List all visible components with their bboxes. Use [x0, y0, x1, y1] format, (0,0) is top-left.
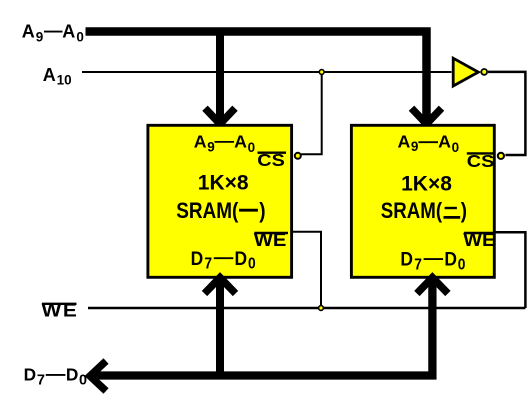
svg-text:A: A: [62, 22, 75, 42]
pin label A9-A0 SRAM2: [398, 131, 460, 155]
SRAM1 box U1: [148, 125, 292, 277]
svg-text:0: 0: [248, 256, 256, 273]
svg-text:SRAM(: SRAM(: [381, 200, 442, 224]
svg-text:9: 9: [36, 29, 44, 44]
SRAM2 box U2: [351, 125, 494, 277]
svg-text:A: A: [398, 131, 411, 151]
svg-text:9: 9: [207, 139, 215, 154]
svg-text:7: 7: [204, 256, 212, 273]
svg-text:D: D: [66, 364, 78, 384]
wire WE: [88, 307, 525, 310]
wire data bus D7-D0 (thick) with corner up to SRAM2: [95, 278, 432, 376]
svg-text:D: D: [191, 247, 204, 269]
inverter output bubble: [481, 69, 487, 75]
node D7-D0 bus label: [24, 364, 87, 388]
arrowhead out of bus to the left: [90, 361, 106, 391]
svg-text:0: 0: [76, 29, 84, 44]
svg-text:D: D: [24, 364, 36, 384]
svg-text:D: D: [444, 248, 457, 270]
wire address bus A9-A0 (thick) with corner down to SRAM2: [86, 32, 427, 120]
wire junction to CS1 bubble: [301, 72, 322, 154]
svg-text:1K×8: 1K×8: [198, 171, 249, 194]
svg-text:D: D: [235, 247, 248, 269]
pin label D7-D0 SRAM1: [191, 247, 256, 273]
svg-text:A: A: [194, 132, 207, 152]
pin CS SRAM2 (active low): [467, 152, 494, 172]
arrowhead into SRAM2 bottom: [417, 278, 448, 294]
svg-text:0: 0: [248, 140, 256, 155]
junction on A10 line: [319, 70, 324, 75]
svg-text:9: 9: [411, 139, 419, 154]
wire WE1 pin to junction: [293, 232, 321, 308]
label SRAM(1): [176, 199, 238, 224]
wire data bus branch up to SRAM1: [216, 278, 224, 380]
wire A10: [82, 71, 452, 73]
node A9-A0 bus label: [22, 22, 84, 45]
svg-text:A: A: [234, 132, 247, 152]
svg-text:1K×8: 1K×8: [401, 172, 452, 195]
junction on WE line: [319, 306, 324, 311]
svg-text:A: A: [22, 22, 35, 42]
svg-text:SRAM(: SRAM(: [176, 199, 238, 224]
arrowhead into SRAM1 top: [205, 108, 235, 124]
label SRAM(2): [381, 200, 442, 224]
svg-text:0: 0: [452, 140, 460, 155]
svg-text:): ): [259, 199, 265, 224]
svg-text:0: 0: [458, 257, 466, 274]
svg-text:7: 7: [414, 257, 422, 274]
wire address bus branch down to SRAM1: [216, 28, 224, 120]
pin label D7-D0 SRAM2: [400, 248, 465, 274]
node WE label (active low): [42, 300, 79, 321]
pin label A9-A0 SRAM1: [194, 132, 255, 156]
arrowhead into SRAM1 bottom: [205, 278, 236, 294]
svg-text:7: 7: [37, 373, 45, 389]
pin WE SRAM1 (active low): [254, 230, 287, 251]
svg-text:A: A: [43, 65, 56, 85]
svg-text:A: A: [438, 131, 451, 151]
CS2 bubble: [498, 153, 504, 159]
wire inverter output to CS2 bubble: [488, 72, 525, 155]
pin CS SRAM1 (active low): [257, 151, 284, 171]
svg-text:10: 10: [57, 73, 72, 88]
wire WE2 pin down to WE line: [496, 232, 526, 308]
pin WE SRAM2 (active low): [463, 230, 495, 250]
inverter U3 on A10: [453, 58, 478, 86]
svg-text:D: D: [400, 248, 413, 270]
svg-text:): ): [461, 200, 467, 224]
arrowhead into SRAM2 top: [412, 108, 442, 124]
node A10 label: [43, 65, 72, 88]
CS1 bubble: [295, 153, 301, 159]
